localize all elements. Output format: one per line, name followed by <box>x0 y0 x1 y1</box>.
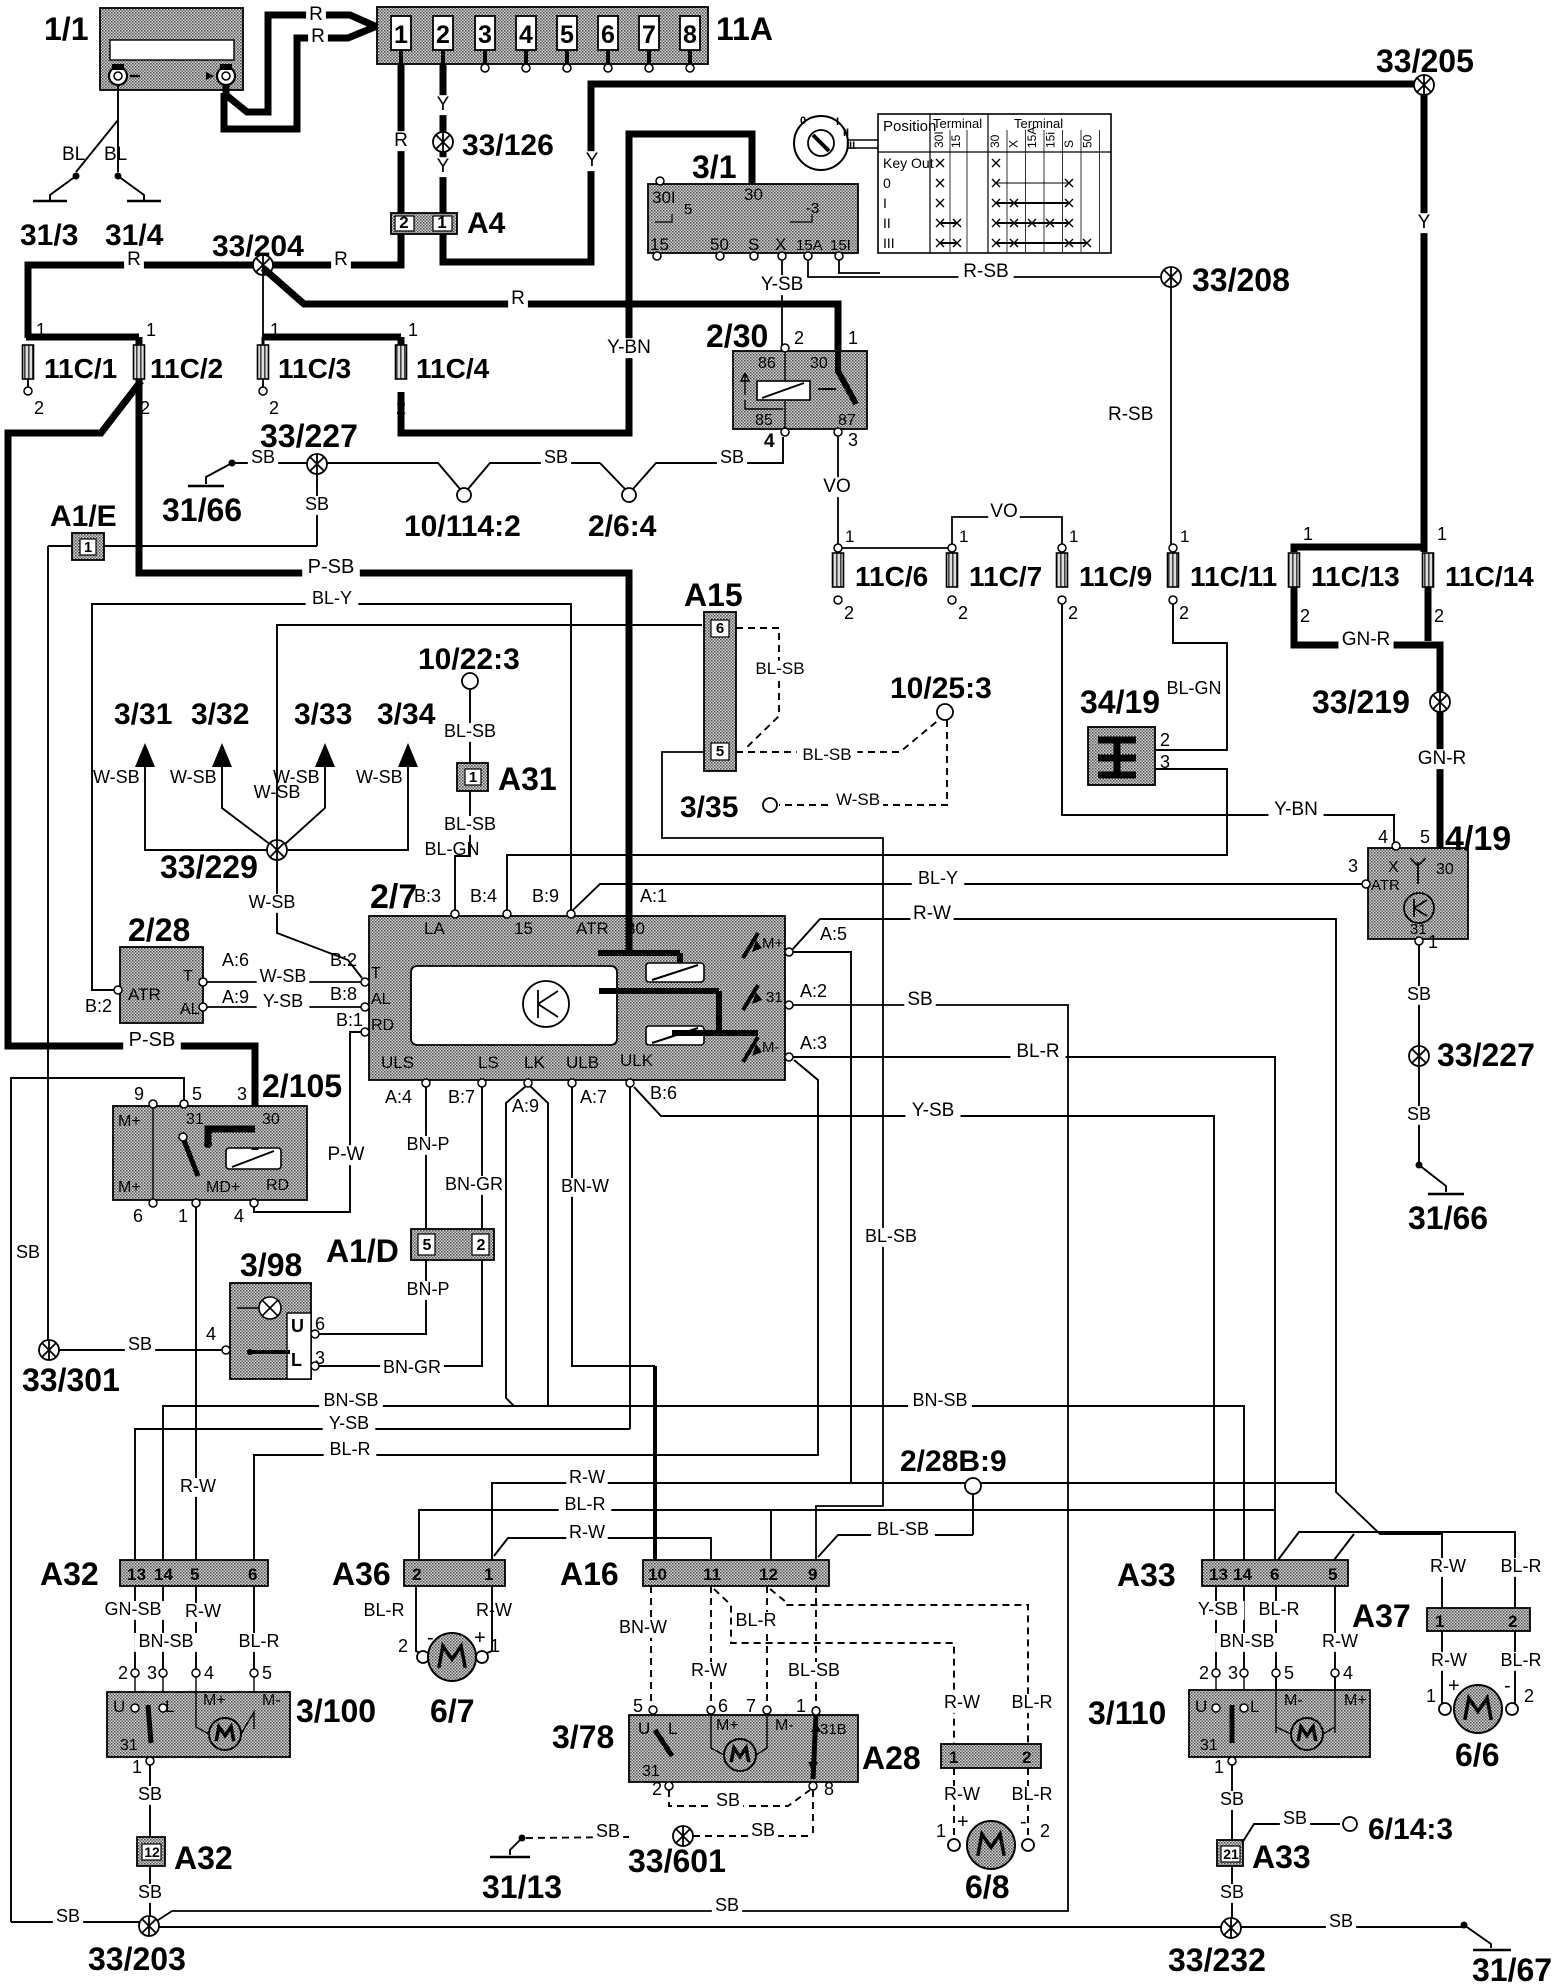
svg-text:BL-R: BL-R <box>1011 1692 1052 1712</box>
svg-text:2: 2 <box>1434 606 1444 626</box>
svg-text:A28: A28 <box>862 1740 921 1776</box>
3/100 pin1 to 33/203 <box>146 1757 154 1765</box>
svg-text:SB: SB <box>1329 1911 1353 1931</box>
svg-text:4: 4 <box>764 431 775 452</box>
svg-text:6/14:3: 6/14:3 <box>1368 1813 1453 1846</box>
svg-text:BN-P: BN-P <box>406 1279 449 1299</box>
svg-text:Y: Y <box>1418 212 1431 233</box>
fuse 8 <box>680 16 700 50</box>
wire 34/19:3 to BL-GN row to 2/7 B:4 <box>507 769 1227 912</box>
svg-text:2: 2 <box>34 398 44 418</box>
svg-text:BL-SB: BL-SB <box>865 1226 917 1246</box>
svg-text:9: 9 <box>134 1084 144 1104</box>
wire Y-SB 3/1:X to 2/30 pin2 <box>781 260 783 348</box>
svg-text:R-SB: R-SB <box>963 261 1008 282</box>
connector A1/E <box>48 545 317 547</box>
svg-text:BL-Y: BL-Y <box>918 868 958 888</box>
splice 33/227 lower <box>1409 1046 1429 1066</box>
svg-text:1: 1 <box>490 1636 500 1656</box>
2/7 top pins <box>451 910 459 918</box>
svg-text:11C/3: 11C/3 <box>278 353 351 384</box>
svg-text:GN-R: GN-R <box>1342 629 1391 650</box>
connector A1/D <box>411 1229 494 1260</box>
svg-text:3/78: 3/78 <box>552 1719 614 1755</box>
fuse 5 <box>557 16 577 50</box>
svg-text:31B: 31B <box>820 1721 847 1738</box>
svg-text:3/1: 3/1 <box>692 149 736 185</box>
svg-text:2: 2 <box>396 398 406 418</box>
svg-text:A15: A15 <box>684 577 743 613</box>
wire R-W 2/7 A:5 to A37:1 <box>792 919 1442 1608</box>
svg-text:11: 11 <box>703 1565 721 1584</box>
svg-text:R-W: R-W <box>180 1476 216 1496</box>
svg-text:BN-P: BN-P <box>406 1134 449 1154</box>
dashed BL-SB A15:6 loop to A15:5 <box>736 628 779 750</box>
svg-text:3/110: 3/110 <box>1088 1695 1166 1731</box>
svg-text:6: 6 <box>133 1206 143 1226</box>
2/105 switch lever <box>183 1138 198 1176</box>
svg-text:GN-R: GN-R <box>1418 748 1467 769</box>
window motor unit 3/100 <box>107 1692 290 1757</box>
svg-text:30: 30 <box>262 1111 280 1128</box>
svg-text:III: III <box>846 140 855 152</box>
wire BN-GR 2/7 B:7 to A1/D:2 <box>481 1087 483 1229</box>
wire SB A1/E down to 33/301 <box>47 546 49 1350</box>
wire 11C/3 to 11C/4 pin1 <box>263 334 401 341</box>
svg-text:3/34: 3/34 <box>377 698 436 731</box>
svg-text:10: 10 <box>648 1565 667 1584</box>
svg-text:M-: M- <box>775 1717 794 1734</box>
svg-text:31/66: 31/66 <box>1408 1200 1488 1236</box>
svg-text:30I: 30I <box>652 188 676 207</box>
wire R-SB 3/1:15A to splice 33/208 <box>808 260 1160 277</box>
svg-text:1: 1 <box>484 1565 493 1584</box>
splice 33/601 <box>673 1826 693 1846</box>
wire P-SB 11C/2 pin2 to 2/7 A:1 <box>139 379 629 916</box>
svg-text:2/28B:9: 2/28B:9 <box>900 1445 1007 1478</box>
wire R battery to fuse 1 feed (upper) <box>226 15 377 112</box>
svg-text:11C/4: 11C/4 <box>416 353 490 384</box>
svg-text:BL-GN: BL-GN <box>1166 678 1221 698</box>
svg-text:S: S <box>1062 140 1076 148</box>
dashed wires A28 to 6/8 <box>953 1768 955 1844</box>
svg-text:-: - <box>1504 1675 1511 1697</box>
svg-text:A:6: A:6 <box>222 950 249 970</box>
svg-text:2/28: 2/28 <box>128 912 190 948</box>
wire SB ground to splice 33/227 <box>232 462 312 464</box>
svg-text:X: X <box>775 235 786 254</box>
svg-text:Y-SB: Y-SB <box>1198 1599 1238 1619</box>
svg-text:SB: SB <box>544 447 568 467</box>
svg-text:Y-BN: Y-BN <box>607 337 651 358</box>
svg-text:11C/13: 11C/13 <box>1311 561 1400 592</box>
wire R branch to 11C/1 11C/2 pin1 <box>26 334 139 341</box>
wire Y-SB 2/7 B:6 row to A33:13 <box>634 1087 1214 1560</box>
svg-text:14: 14 <box>154 1565 173 1584</box>
wire 33/204 down to 11C/3 pin1 <box>262 275 264 340</box>
svg-text:31: 31 <box>120 1737 138 1754</box>
ignition switch 3/1 <box>648 184 858 253</box>
svg-text:A:1: A:1 <box>640 886 667 906</box>
svg-text:R-W: R-W <box>1322 1631 1358 1651</box>
svg-text:6/7: 6/7 <box>430 1693 474 1729</box>
splice 33/219 <box>1430 692 1450 712</box>
wires A37 to 6/6 <box>1441 1631 1443 1709</box>
svg-text:-3: -3 <box>806 200 819 217</box>
svg-text:1: 1 <box>796 1696 806 1716</box>
wire SB 33/227 down to A1/E <box>316 474 318 546</box>
svg-text:Y-SB: Y-SB <box>761 274 804 295</box>
svg-text:A36: A36 <box>332 1556 391 1592</box>
svg-text:A:7: A:7 <box>580 1087 607 1107</box>
svg-text:A:2: A:2 <box>800 981 827 1001</box>
ground 31/3 <box>73 173 80 180</box>
svg-text:1: 1 <box>1435 1612 1444 1631</box>
wire A:9 loop left leg <box>506 1086 526 1406</box>
svg-text:11C/7: 11C/7 <box>969 561 1042 592</box>
svg-text:A4: A4 <box>467 207 506 240</box>
wire P-W 2/105:4 to 2/7 B:1 <box>254 1032 362 1212</box>
svg-text:12: 12 <box>144 1844 160 1860</box>
svg-text:SB: SB <box>1220 1789 1244 1809</box>
splice 33/227 <box>307 454 327 474</box>
ground 31/4 <box>115 173 122 180</box>
svg-text:T: T <box>371 965 381 982</box>
svg-text:SB: SB <box>138 1784 162 1804</box>
antenna amplifier 4/19 <box>1368 848 1468 939</box>
svg-text:1: 1 <box>178 1206 188 1226</box>
splice 33/204 <box>253 255 273 275</box>
svg-text:M-: M- <box>762 1039 780 1056</box>
svg-text:33/208: 33/208 <box>1192 262 1290 298</box>
battery 1/1 <box>100 8 243 90</box>
svg-text:33/229: 33/229 <box>160 849 258 885</box>
svg-text:AL: AL <box>371 991 391 1008</box>
svg-text:11C/14: 11C/14 <box>1445 561 1534 592</box>
connector 11C/9 <box>1057 553 1068 587</box>
svg-text:A33: A33 <box>1117 1557 1176 1593</box>
svg-text:2/6:4: 2/6:4 <box>588 510 657 543</box>
svg-text:BN-SB: BN-SB <box>1219 1631 1274 1651</box>
svg-text:2: 2 <box>652 1779 662 1799</box>
svg-text:31/13: 31/13 <box>482 1869 562 1905</box>
3/100 motor <box>209 1718 241 1750</box>
svg-text:3: 3 <box>478 21 492 49</box>
svg-text:Y-SB: Y-SB <box>329 1413 369 1433</box>
splice 33/229 <box>267 840 287 860</box>
3/78 internal 31B lever <box>813 1715 816 1779</box>
svg-text:I: I <box>883 195 887 211</box>
svg-text:2/105: 2/105 <box>262 1068 342 1104</box>
bottom SB rail right <box>1326 1913 1356 1932</box>
svg-text:3/31: 3/31 <box>114 698 172 731</box>
svg-text:Position: Position <box>883 118 936 135</box>
svg-text:33/126: 33/126 <box>462 129 554 162</box>
svg-text:5: 5 <box>423 1237 432 1254</box>
svg-text:34/19: 34/19 <box>1080 684 1160 720</box>
2/105 internal thick wires <box>252 1148 259 1150</box>
svg-text:2: 2 <box>1300 606 1310 626</box>
svg-text:1: 1 <box>1426 1686 1436 1706</box>
svg-text:L: L <box>668 1719 677 1738</box>
svg-text:1: 1 <box>936 1821 946 1841</box>
svg-text:R: R <box>309 4 323 25</box>
svg-text:5: 5 <box>262 1663 272 1683</box>
svg-text:ATR: ATR <box>1371 877 1400 894</box>
wire A:9 loop right leg <box>530 1086 548 1406</box>
svg-text:1: 1 <box>132 1757 142 1777</box>
svg-text:2: 2 <box>477 1237 486 1254</box>
svg-text:3/100: 3/100 <box>296 1693 376 1729</box>
svg-text:SB: SB <box>1407 1104 1431 1124</box>
svg-text:2: 2 <box>1160 730 1170 750</box>
svg-text:W-SB: W-SB <box>93 767 140 787</box>
svg-text:31/4: 31/4 <box>105 219 164 252</box>
svg-text:2: 2 <box>1508 1612 1517 1631</box>
svg-text:15i: 15i <box>1044 132 1058 148</box>
svg-text:BL-GN: BL-GN <box>424 839 479 859</box>
svg-text:30: 30 <box>1436 861 1454 878</box>
svg-text:1: 1 <box>84 539 92 556</box>
svg-text:6: 6 <box>1270 1565 1279 1584</box>
svg-text:SB: SB <box>138 1882 162 1902</box>
svg-text:4: 4 <box>234 1206 244 1226</box>
2/105 internal pin9-6 line <box>152 1106 154 1200</box>
svg-text:BL-R: BL-R <box>1016 1041 1059 1062</box>
svg-text:4: 4 <box>206 1324 216 1344</box>
svg-text:A37: A37 <box>1352 1598 1411 1634</box>
svg-text:B:1: B:1 <box>336 1010 363 1030</box>
wire SB 4/19:31 to ground 31/66 <box>1418 945 1420 1165</box>
svg-text:85: 85 <box>755 412 773 429</box>
svg-text:2: 2 <box>1040 1821 1050 1841</box>
svg-text:BN-GR: BN-GR <box>445 1174 503 1194</box>
connector 11C/7 <box>947 553 958 587</box>
2/105 pins <box>149 1100 157 1108</box>
svg-text:III: III <box>883 235 895 251</box>
svg-text:T: T <box>183 968 193 985</box>
svg-text:R: R <box>394 130 408 151</box>
pin 30I top <box>656 177 664 185</box>
svg-text:2: 2 <box>1179 603 1189 623</box>
svg-text:M+: M+ <box>118 1179 141 1196</box>
svg-text:30: 30 <box>744 185 763 204</box>
svg-text:P-W: P-W <box>328 1144 365 1165</box>
svg-text:S: S <box>748 235 759 254</box>
svg-text:6: 6 <box>716 620 724 637</box>
svg-text:W-SB: W-SB <box>836 790 880 809</box>
svg-text:M+: M+ <box>762 935 783 952</box>
dashed R-W A16:11 to A28:1 <box>714 1589 954 1744</box>
svg-text:SB: SB <box>751 1820 775 1840</box>
svg-text:R-W: R-W <box>185 1601 221 1621</box>
connector A33:21 <box>1217 1840 1243 1866</box>
svg-text:1: 1 <box>1437 524 1447 544</box>
svg-text:VO: VO <box>823 476 850 497</box>
wire BN-GR A1/D:2 to 3/98:3 <box>319 1260 482 1366</box>
wire BL-SB vertical label <box>859 1228 923 1247</box>
svg-text:13: 13 <box>1209 1565 1228 1584</box>
svg-text:8: 8 <box>683 21 697 49</box>
svg-text:R-W: R-W <box>1431 1650 1467 1670</box>
svg-text:Y-SB: Y-SB <box>912 1100 955 1121</box>
svg-text:15: 15 <box>514 919 533 938</box>
wire from A15:5 down to BL-SB riser <box>662 752 883 1560</box>
svg-text:BL-R: BL-R <box>735 1610 776 1630</box>
svg-text:U: U <box>1195 1697 1207 1716</box>
svg-text:L: L <box>291 1350 302 1370</box>
svg-text:1: 1 <box>36 320 46 340</box>
connector A32 <box>120 1560 268 1586</box>
2/30 coil <box>757 381 810 400</box>
svg-text:BN-SB: BN-SB <box>323 1390 378 1410</box>
svg-text:VO: VO <box>990 501 1017 522</box>
svg-text:A31: A31 <box>498 761 557 797</box>
svg-text:M-: M- <box>262 1692 281 1709</box>
connector 11C/4 <box>396 345 407 379</box>
wire R battery to fuse box (lower) <box>224 26 377 129</box>
fuse box 11A <box>377 7 708 64</box>
wire SB 2/105:5 to left rail <box>11 1078 184 1922</box>
svg-text:M+: M+ <box>203 1692 226 1709</box>
svg-text:0: 0 <box>883 175 891 191</box>
svg-text:SB: SB <box>907 989 932 1010</box>
svg-text:R-W: R-W <box>944 1692 980 1712</box>
svg-text:SB: SB <box>715 1895 739 1915</box>
svg-text:X: X <box>1007 140 1021 148</box>
wire Y-SB row A32:13 to ULK <box>135 1429 630 1560</box>
ground 31/13 <box>519 1835 526 1842</box>
wire BN-P 2/7 A:4 to A1/D:5 <box>425 1087 427 1229</box>
svg-text:LA: LA <box>424 919 445 938</box>
wire R A4:2 down-left to splice 33/204 and 11C/1 <box>28 234 401 338</box>
svg-text:11C/2: 11C/2 <box>150 353 223 384</box>
svg-text:Y: Y <box>586 150 599 171</box>
svg-text:W-SB: W-SB <box>356 767 403 787</box>
svg-text:SB: SB <box>1220 1882 1244 1902</box>
svg-text:+: + <box>474 1627 486 1649</box>
svg-text:BN-GR: BN-GR <box>383 1357 441 1377</box>
svg-text:BL-R: BL-R <box>1258 1599 1299 1619</box>
fuse 2 <box>433 16 453 50</box>
combination switch 2/7 <box>369 916 785 1080</box>
svg-text:30: 30 <box>988 134 1002 148</box>
svg-text:R-W: R-W <box>476 1600 512 1620</box>
wire BL-Y 2/28 B:2 to 2/7 B:9 <box>92 604 571 990</box>
svg-text:31: 31 <box>186 1111 204 1128</box>
wire 11C/6 to 11C/7 pin1 <box>838 547 952 549</box>
ground 31/67 <box>1461 1922 1468 1929</box>
svg-text:BL: BL <box>104 144 127 165</box>
svg-text:3: 3 <box>237 1084 247 1104</box>
svg-text:LK: LK <box>524 1053 545 1072</box>
svg-text:W-SB: W-SB <box>249 892 296 912</box>
wire W-SB 2/28:T to 2/7 B:2 <box>207 981 362 983</box>
svg-text:7: 7 <box>642 21 656 49</box>
svg-text:5: 5 <box>1420 827 1430 847</box>
svg-text:1: 1 <box>408 320 418 340</box>
3/78 motor <box>724 1739 756 1771</box>
wire Y-SB 2/28:AL to 2/7 B:8 <box>207 1006 362 1008</box>
svg-text:15: 15 <box>949 134 963 148</box>
svg-text:W-SB: W-SB <box>260 966 307 986</box>
3/110 pin1 to 33/232 <box>1228 1757 1236 1765</box>
svg-text:30: 30 <box>810 355 828 372</box>
svg-text:SB: SB <box>716 1790 740 1810</box>
svg-text:3/33: 3/33 <box>294 698 352 731</box>
svg-text:7: 7 <box>746 1696 756 1716</box>
fuse 6 <box>598 16 618 50</box>
svg-text:Y-BN: Y-BN <box>1274 799 1318 820</box>
11C/1 pin2 <box>27 379 29 388</box>
svg-text:14: 14 <box>1233 1565 1252 1584</box>
svg-text:A:9: A:9 <box>512 1096 539 1116</box>
svg-text:B:2: B:2 <box>85 996 112 1016</box>
wire A33:5 diagonal to R-W <box>1334 1534 1354 1560</box>
connector A31 <box>457 763 488 791</box>
connector 2/6:4 <box>622 488 636 502</box>
svg-text:2: 2 <box>412 1565 421 1584</box>
svg-text:3/98: 3/98 <box>240 1247 302 1283</box>
svg-text:2/7: 2/7 <box>370 878 417 916</box>
svg-text:R-W: R-W <box>913 903 951 924</box>
splice 33/232 <box>1221 1918 1241 1938</box>
wire BL-SB A31 to 2/7 B:3 <box>455 791 470 912</box>
svg-text:L: L <box>1250 1697 1259 1716</box>
svg-text:SB: SB <box>56 1906 80 1926</box>
splice 33/208 <box>1161 267 1181 287</box>
svg-text:M-: M- <box>1284 1692 1303 1709</box>
svg-text:10/25:3: 10/25:3 <box>890 672 992 705</box>
connector 11C/2 <box>134 345 145 379</box>
svg-text:15I: 15I <box>830 237 851 254</box>
svg-text:1: 1 <box>1303 524 1313 544</box>
wire BL-R row A36:2 to A33 riser <box>419 1510 1275 1560</box>
svg-text:3: 3 <box>1160 752 1170 772</box>
svg-text:3: 3 <box>848 430 858 450</box>
svg-text:31/66: 31/66 <box>162 492 242 528</box>
svg-text:11A: 11A <box>716 11 773 47</box>
wire A33:6 diagonal to A37:2 <box>1278 1532 1515 1608</box>
svg-text:B:6: B:6 <box>650 1083 677 1103</box>
wire 2/7 A:5 branch down <box>793 952 851 1483</box>
wire BN-P A1/D:5 to 3/98:6 <box>319 1260 426 1334</box>
svg-text:2: 2 <box>269 398 279 418</box>
svg-text:-: - <box>1020 1811 1027 1833</box>
wires from arrows to splice 33/229 <box>145 767 267 850</box>
svg-text:1: 1 <box>437 213 446 232</box>
svg-text:B:2: B:2 <box>330 950 357 970</box>
svg-text:R-SB: R-SB <box>1108 404 1153 425</box>
splice 33/205 <box>1414 75 1434 95</box>
svg-text:2: 2 <box>1199 1663 1209 1683</box>
connector 11C/11 <box>1168 553 1179 587</box>
svg-text:1: 1 <box>469 769 477 786</box>
3/78 pin2 pin8 dashed SB <box>665 1782 673 1790</box>
svg-text:X: X <box>1388 859 1399 876</box>
svg-text:31/67: 31/67 <box>1472 1952 1552 1986</box>
svg-text:50: 50 <box>1081 134 1095 148</box>
svg-text:A32: A32 <box>174 1840 233 1876</box>
svg-text:2: 2 <box>399 213 408 232</box>
svg-text:BL-SB: BL-SB <box>788 1660 840 1680</box>
ignition key symbol <box>794 116 848 170</box>
svg-text:R: R <box>511 288 525 309</box>
2/7 internal mechanism thick <box>626 916 633 953</box>
svg-text:B:4: B:4 <box>470 886 497 906</box>
svg-text:BL-R: BL-R <box>564 1494 605 1514</box>
headlamp switch 2/105 <box>113 1106 307 1200</box>
